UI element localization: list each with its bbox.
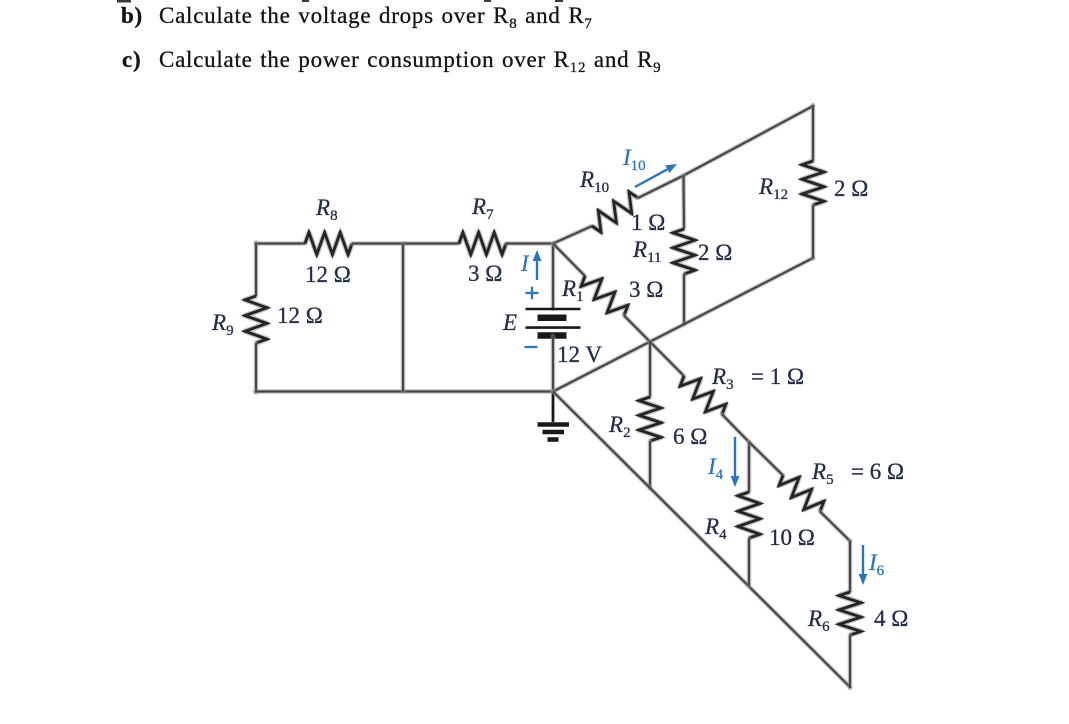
svg-text:4 Ω: 4 Ω xyxy=(874,606,908,631)
svg-text:b)Calculate the voltage drops: b)Calculate the voltage drops over R8 an… xyxy=(121,3,593,32)
wire top rail (R10 to apex N3) xyxy=(638,106,813,198)
wire top rail (N1 to R10) xyxy=(553,226,592,244)
wire diagonal (A to R5) xyxy=(749,442,783,475)
wire R6 top lead (from node B) xyxy=(848,541,853,592)
svg-text:= 6 Ω: = 6 Ω xyxy=(851,459,904,484)
svg-text:12 V: 12 V xyxy=(557,342,602,367)
wire top edge middle (R8 to R7) xyxy=(352,241,459,246)
svg-text:2 Ω: 2 Ω xyxy=(834,176,868,201)
svg-text:1 Ω: 1 Ω xyxy=(631,210,665,235)
wire R11 top lead xyxy=(681,176,686,230)
wire diagonal (N1 to R1) xyxy=(553,244,585,277)
resistor R11 zigzag xyxy=(673,229,695,274)
svg-text:12 Ω: 12 Ω xyxy=(305,262,351,287)
battery E plates xyxy=(526,309,581,336)
svg-text:= 1 Ω: = 1 Ω xyxy=(751,364,804,389)
svg-text:E: E xyxy=(502,310,517,335)
resistor R6 zigzag xyxy=(839,592,861,635)
wire R6 bottom lead (to outer diagonal end) xyxy=(848,635,853,688)
minus sign of E xyxy=(525,346,538,348)
svg-text:3 Ω: 3 Ω xyxy=(468,261,502,286)
resistor R2 zigzag xyxy=(639,397,661,441)
resistor R10 zigzag xyxy=(592,192,638,232)
wire R4 top lead (from node A) xyxy=(747,442,752,492)
wire diagonal (R3 to node A) xyxy=(722,414,749,442)
wire top edge left (TL to R8) xyxy=(256,241,305,246)
wire top edge right (R7 to node N1) xyxy=(506,241,553,246)
wire R12 bottom lead (to N6) xyxy=(811,205,816,259)
wire bottom rail (N4 to N6) xyxy=(553,258,813,392)
svg-text:2 Ω: 2 Ω xyxy=(698,240,732,265)
wire left edge top xyxy=(254,243,259,297)
svg-text:3 Ω: 3 Ω xyxy=(629,277,663,302)
resistor R8 zigzag xyxy=(305,233,352,255)
resistor R4 zigzag xyxy=(738,492,760,538)
svg-text:10 Ω: 10 Ω xyxy=(769,525,815,550)
resistor R7 zigzag xyxy=(459,233,506,255)
ground symbol xyxy=(538,392,570,440)
svg-text:6 Ω: 6 Ω xyxy=(673,424,707,449)
wire outer diagonal (N4 to bottom corner) xyxy=(553,392,850,688)
wire battery top lead xyxy=(551,244,556,310)
current I10 arrow xyxy=(635,169,667,187)
wire R4 bottom lead (to outer diagonal) xyxy=(747,538,752,586)
wire R12 top lead (from apex) xyxy=(811,105,816,161)
wire battery bottom lead xyxy=(551,336,556,393)
svg-text:12 Ω: 12 Ω xyxy=(277,303,323,328)
resistor R9 zigzag xyxy=(245,296,267,343)
resistor R1 zigzag xyxy=(581,276,628,316)
plus sign of E xyxy=(526,287,539,300)
wire middle vertical branch xyxy=(401,244,406,392)
cropped text fragments at top edge xyxy=(117,0,563,3)
wire diagonal (R5 to node B) xyxy=(820,512,850,542)
current I6 arrow xyxy=(862,545,864,574)
wire left edge bottom xyxy=(254,343,259,393)
wire R2 bottom lead (to outer diagonal) xyxy=(648,441,653,488)
svg-text:I: I xyxy=(520,251,530,276)
resistor R5 zigzag xyxy=(779,475,824,511)
wire diagonal (R1 to R3, through crossing node X) xyxy=(624,316,684,377)
wire bottom edge xyxy=(255,389,553,394)
current I4 arrow xyxy=(734,437,736,476)
resistor R3 zigzag xyxy=(680,376,726,414)
resistor R12 zigzag xyxy=(802,161,824,205)
current I arrow xyxy=(536,261,538,280)
wire R2 top lead (from node X) xyxy=(648,341,653,397)
wire R11 bottom lead (to node N5 on rail) xyxy=(682,274,687,324)
